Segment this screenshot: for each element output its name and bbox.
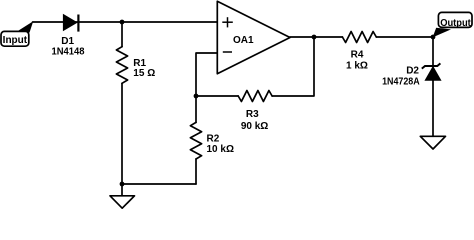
svg-text:D2: D2	[406, 66, 419, 77]
svg-text:90 kΩ: 90 kΩ	[241, 121, 268, 132]
svg-text:Input: Input	[3, 35, 28, 46]
svg-text:10 kΩ: 10 kΩ	[207, 144, 234, 155]
svg-text:Output: Output	[440, 18, 471, 29]
svg-text:1 kΩ: 1 kΩ	[346, 61, 368, 72]
svg-text:1N4148: 1N4148	[52, 46, 85, 57]
svg-text:R3: R3	[246, 109, 259, 120]
svg-text:15 Ω: 15 Ω	[133, 68, 155, 79]
svg-text:1N4728A: 1N4728A	[382, 76, 420, 87]
svg-text:R4: R4	[351, 50, 364, 61]
svg-text:OA1: OA1	[233, 35, 254, 46]
